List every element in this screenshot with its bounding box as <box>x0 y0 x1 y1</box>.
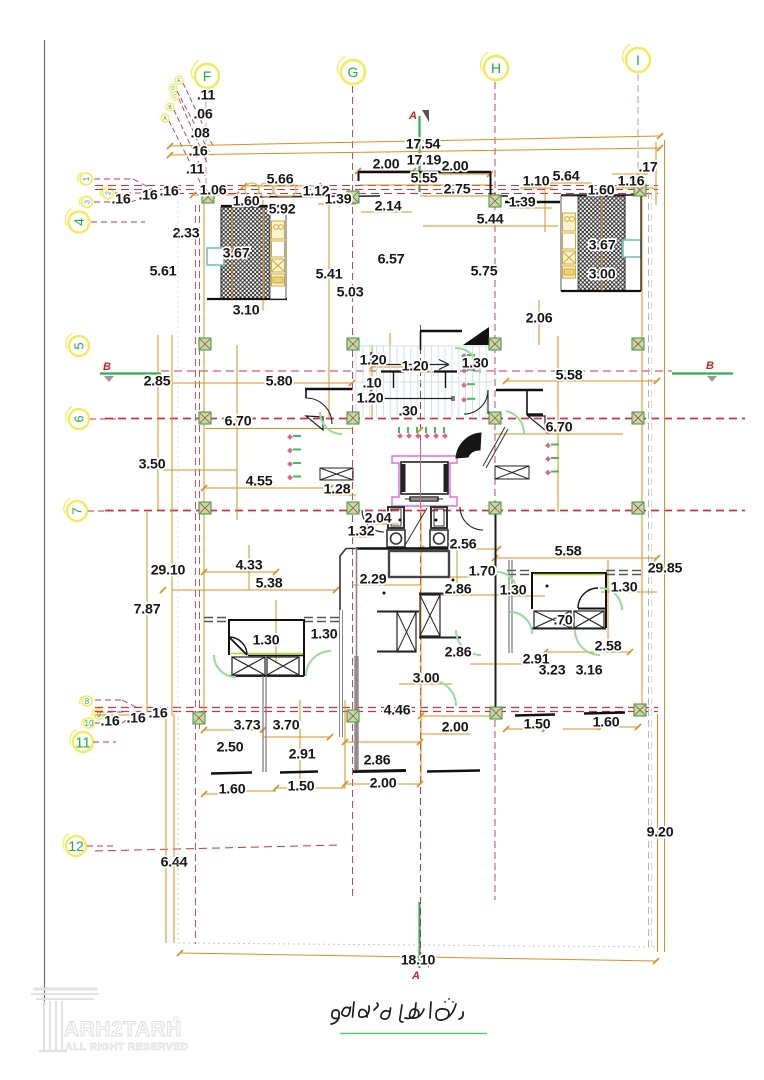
right unit entry door leaf <box>456 433 481 458</box>
svg-text:.70: .70 <box>553 613 572 629</box>
wc fixture left <box>387 507 405 547</box>
svg-text:6.44: 6.44 <box>161 855 188 871</box>
svg-text:6.57: 6.57 <box>378 252 405 268</box>
svg-text:1.60: 1.60 <box>588 183 615 199</box>
red dashed grid horizontals <box>95 186 745 852</box>
wall top balcony <box>244 196 380 197</box>
wc fixture right <box>430 507 448 547</box>
wall top right kitchen <box>561 194 641 196</box>
svg-text:.06: .06 <box>193 107 212 123</box>
bedroom R dot <box>546 585 549 588</box>
grid bubble 9 <box>92 709 104 719</box>
window sills <box>211 713 625 774</box>
svg-text:1.32: 1.32 <box>348 524 375 540</box>
svg-text:5.80: 5.80 <box>266 374 293 390</box>
boundary top small <box>177 200 179 718</box>
grid bubble 3 <box>79 196 92 207</box>
kitchen R right wall <box>640 196 642 291</box>
corridor closet v1 <box>419 594 461 638</box>
stair mid walls <box>381 371 457 388</box>
elevator shaft magenta <box>392 456 457 506</box>
svg-text:5.55: 5.55 <box>411 171 438 187</box>
svg-text:.10: .10 <box>362 376 381 392</box>
elevator car <box>401 462 448 501</box>
svg-text:12: 12 <box>68 838 84 854</box>
grid bubble 10 <box>82 718 94 728</box>
lobby diagonal wall <box>483 427 508 468</box>
svg-text:A: A <box>163 116 167 122</box>
kitchen L appliances <box>272 221 285 286</box>
svg-text:2.58: 2.58 <box>595 639 622 655</box>
svg-text:.16: .16 <box>100 714 119 730</box>
svg-text:10: 10 <box>85 719 94 728</box>
staircase treads <box>356 346 492 418</box>
grid bubble 2 <box>100 187 113 198</box>
right unit door arc <box>460 507 483 530</box>
niche xbox small <box>320 468 353 480</box>
svg-text:6.70: 6.70 <box>546 420 573 436</box>
svg-text:1.30: 1.30 <box>253 633 280 649</box>
svg-text:ARH2TARH: ARH2TARH <box>64 1018 182 1041</box>
caption persian title (drawn) <box>331 998 463 1024</box>
svg-text:3.23: 3.23 <box>539 663 566 679</box>
svg-text:.08: .08 <box>190 126 209 142</box>
bedroom L window dashes <box>204 618 339 622</box>
svg-text:.16: .16 <box>159 184 178 200</box>
svg-text:1.60: 1.60 <box>233 194 260 210</box>
svg-text:2.00: 2.00 <box>373 157 400 173</box>
svg-text:2.00: 2.00 <box>442 159 469 175</box>
kitchen L top wall <box>221 205 287 207</box>
kitchen L counter <box>270 207 286 299</box>
dimension tick marks <box>160 133 663 964</box>
svg-text:1: 1 <box>82 176 91 181</box>
kitchen R teal box <box>623 240 641 257</box>
bedroom L walls <box>229 620 304 676</box>
svg-text:2.06: 2.06 <box>526 311 553 327</box>
shaft xbox right <box>495 466 529 479</box>
svg-text:H: H <box>491 60 501 76</box>
landing door arc 1 <box>306 398 332 424</box>
svg-text:2.50: 2.50 <box>217 740 244 756</box>
svg-text:17.19: 17.19 <box>407 153 442 169</box>
stair level tags right lower <box>545 429 559 475</box>
svg-text:1.20: 1.20 <box>360 353 387 369</box>
svg-text:3.73: 3.73 <box>234 718 261 734</box>
caption underline <box>340 1033 487 1035</box>
stair arrow <box>371 352 454 401</box>
svg-text:.11: .11 <box>197 88 216 104</box>
svg-text:.16: .16 <box>148 706 167 722</box>
svg-text:2.86: 2.86 <box>445 582 472 598</box>
svg-text:2.91: 2.91 <box>289 747 316 763</box>
svg-text:1.30: 1.30 <box>611 580 638 596</box>
axis I <box>623 44 650 72</box>
stair left wall T <box>305 389 352 398</box>
svg-text:2.00: 2.00 <box>442 720 469 736</box>
svg-text:.11: .11 <box>186 162 205 178</box>
svg-text:1.20: 1.20 <box>357 391 384 407</box>
svg-text:11: 11 <box>75 734 91 751</box>
corridor closet v2 <box>377 612 419 653</box>
svg-text:3.50: 3.50 <box>139 457 166 473</box>
wc diagonal <box>404 508 427 547</box>
kitchen L bottom wall <box>207 298 287 300</box>
axis F <box>192 60 219 88</box>
orange dimension verticals <box>147 140 665 952</box>
svg-text:.30: .30 <box>398 404 417 420</box>
grid bubble 12 <box>63 834 86 857</box>
svg-text:B: B <box>168 105 172 111</box>
svg-text:1.60: 1.60 <box>593 715 620 731</box>
svg-text:29.85: 29.85 <box>648 561 683 577</box>
bedroom R closet boxes <box>532 611 606 629</box>
axis I gray dashed <box>648 192 650 947</box>
svg-text:5.58: 5.58 <box>555 544 582 560</box>
right unit wall <box>495 510 497 708</box>
axis I line <box>637 74 639 190</box>
svg-text:5: 5 <box>72 342 87 349</box>
svg-text:18.10: 18.10 <box>401 953 436 969</box>
center axis dashed x420 <box>420 325 422 957</box>
stair level tags right column <box>461 353 475 402</box>
svg-text:.16: .16 <box>126 711 145 727</box>
svg-text:1.39: 1.39 <box>325 192 352 208</box>
svg-text:D: D <box>171 86 175 92</box>
wall top center <box>358 172 508 196</box>
svg-text:2.00: 2.00 <box>370 776 397 792</box>
kitchen L wall hatch <box>221 207 270 299</box>
svg-text:1.39: 1.39 <box>509 195 536 211</box>
svg-text:2.29: 2.29 <box>360 572 387 588</box>
axis H line <box>494 82 496 900</box>
svg-text:2.56: 2.56 <box>450 537 477 553</box>
axis G <box>338 56 365 84</box>
svg-text:1.30: 1.30 <box>500 583 527 599</box>
stair level tags left column <box>287 434 301 480</box>
svg-text:7.87: 7.87 <box>134 602 161 618</box>
svg-text:4.33: 4.33 <box>236 558 263 574</box>
svg-text:5.44: 5.44 <box>477 212 504 228</box>
svg-text:9.20: 9.20 <box>647 825 674 841</box>
kitchen R wall hatch <box>578 196 625 291</box>
section marker B right <box>672 360 733 382</box>
svg-text:6.70: 6.70 <box>225 414 252 430</box>
kitchen R appliances <box>563 213 576 278</box>
svg-text:F: F <box>203 68 212 84</box>
svg-text:5.41: 5.41 <box>316 267 343 283</box>
bedroom R walls <box>532 573 606 628</box>
svg-text:1.16: 1.16 <box>618 174 645 190</box>
svg-text:ALL RIGHT RESERVED: ALL RIGHT RESERVED <box>65 1041 189 1053</box>
grid bubble 6 <box>66 407 89 430</box>
bedroom L lime line <box>231 653 303 655</box>
svg-text:1.06: 1.06 <box>200 183 227 199</box>
svg-text:2.85: 2.85 <box>144 374 171 390</box>
svg-text:5.92: 5.92 <box>269 202 296 218</box>
section marker A bottom <box>411 902 429 982</box>
svg-text:3.67: 3.67 <box>223 246 250 262</box>
svg-text:B: B <box>706 360 714 372</box>
svg-text:2.86: 2.86 <box>364 753 391 769</box>
hall door triangle <box>528 416 545 430</box>
svg-text:C: C <box>173 94 177 100</box>
left unit wall <box>356 548 358 772</box>
svg-text:1.50: 1.50 <box>524 717 551 733</box>
svg-text:4.55: 4.55 <box>246 474 273 490</box>
svg-text:7: 7 <box>70 507 85 514</box>
axes E D C B A bubbles <box>161 76 213 186</box>
svg-text:1.50: 1.50 <box>288 779 315 795</box>
duct box <box>389 551 449 577</box>
svg-text:29.10: 29.10 <box>151 563 186 579</box>
stair top wall <box>420 331 462 350</box>
svg-text:5.03: 5.03 <box>337 285 364 301</box>
svg-text:8: 8 <box>85 697 90 706</box>
svg-text:I: I <box>636 52 640 68</box>
svg-text:5.64: 5.64 <box>553 169 580 185</box>
svg-text:4: 4 <box>71 218 87 226</box>
svg-text:.16: .16 <box>138 188 157 204</box>
bedroom R window dashes <box>507 571 641 575</box>
svg-text:2.86: 2.86 <box>445 645 472 661</box>
section marker A top <box>408 110 429 192</box>
left stair door triangle <box>306 416 323 430</box>
svg-text:5.58: 5.58 <box>556 368 583 384</box>
unit wall bottom hall <box>356 547 449 550</box>
svg-text:®: ® <box>172 1015 180 1026</box>
wc dots <box>399 519 402 522</box>
hall door arc <box>464 390 488 414</box>
svg-text:3.70: 3.70 <box>273 718 300 734</box>
svg-text:A: A <box>411 970 420 982</box>
kitchen centerlines over hatch <box>232 196 602 299</box>
columns <box>193 184 646 724</box>
property boundary bottom <box>178 718 656 947</box>
green door swings <box>214 348 622 706</box>
svg-text:3: 3 <box>85 200 92 204</box>
left unit door arc <box>362 510 384 532</box>
svg-text:1.70: 1.70 <box>469 564 496 580</box>
sheet left border line <box>44 40 46 1005</box>
svg-text:1.30: 1.30 <box>311 627 338 643</box>
svg-text:6: 6 <box>72 415 87 422</box>
axis F line <box>205 90 207 196</box>
kitchen R bottom wall <box>561 290 641 292</box>
unit wall diag left <box>340 549 356 611</box>
lobby green arc <box>506 411 524 434</box>
svg-text:.16: .16 <box>111 192 130 208</box>
grid bubble 4 <box>65 209 89 233</box>
wall top right seg <box>505 201 560 203</box>
axis H <box>481 52 508 80</box>
section flag triangle <box>463 327 489 345</box>
grid bubble 8 <box>80 696 92 706</box>
svg-text:1.60: 1.60 <box>219 782 246 798</box>
upper right xbox <box>0 0 1 1</box>
wall axis dashed x196 <box>195 205 197 944</box>
dimension labels <box>100 88 682 969</box>
svg-text:2.33: 2.33 <box>173 226 200 242</box>
grid bubble 1 <box>78 173 92 185</box>
bubble leader lines <box>87 179 152 846</box>
kitchen L teal box <box>207 248 224 265</box>
bedroom R door arc <box>578 588 598 608</box>
svg-text:E: E <box>177 78 181 84</box>
room divider walls bottom <box>263 560 512 772</box>
orange dimension horizontals <box>95 136 660 961</box>
stair level tags bottom row <box>397 427 448 439</box>
bedroom L door arc <box>229 637 247 655</box>
svg-text:5.61: 5.61 <box>150 264 177 280</box>
hall wall right of stairs <box>496 390 543 415</box>
section marker B left <box>100 361 161 382</box>
svg-text:5.66: 5.66 <box>267 172 294 188</box>
svg-text:17.54: 17.54 <box>406 137 441 153</box>
logo ARH2TARH <box>31 989 189 1053</box>
svg-text:.17: .17 <box>638 160 657 176</box>
svg-text:5.75: 5.75 <box>471 264 498 280</box>
svg-text:B: B <box>103 361 111 373</box>
grid bubble 5 <box>66 334 89 357</box>
svg-text:5.38: 5.38 <box>256 576 283 592</box>
grid bubble 11 <box>70 730 93 753</box>
svg-text:G: G <box>348 64 359 80</box>
svg-text:4.46: 4.46 <box>384 703 411 719</box>
bedroom L closet boxes <box>229 657 304 676</box>
elevator center line <box>420 440 422 506</box>
svg-text:1.10: 1.10 <box>523 174 550 190</box>
svg-text:3.00: 3.00 <box>413 671 440 687</box>
svg-text:2.75: 2.75 <box>444 182 471 198</box>
svg-text:1.20: 1.20 <box>402 359 429 375</box>
svg-text:3.67: 3.67 <box>589 238 616 254</box>
svg-text:2.14: 2.14 <box>375 199 402 215</box>
svg-text:3.10: 3.10 <box>233 303 260 319</box>
cooktop circles top <box>245 183 296 197</box>
axis G line <box>352 86 354 900</box>
bath xbox right <box>0 0 1 1</box>
grid bubble 7 <box>64 499 87 522</box>
svg-text:.16: .16 <box>188 144 207 160</box>
svg-text:A: A <box>408 110 417 122</box>
svg-text:3.16: 3.16 <box>576 663 603 679</box>
svg-text:3.00: 3.00 <box>589 267 616 283</box>
svg-text:1.28: 1.28 <box>324 482 351 498</box>
svg-text:1.30: 1.30 <box>462 356 489 372</box>
bedroom R lime line <box>534 574 604 576</box>
kitchen R counter <box>561 196 578 291</box>
